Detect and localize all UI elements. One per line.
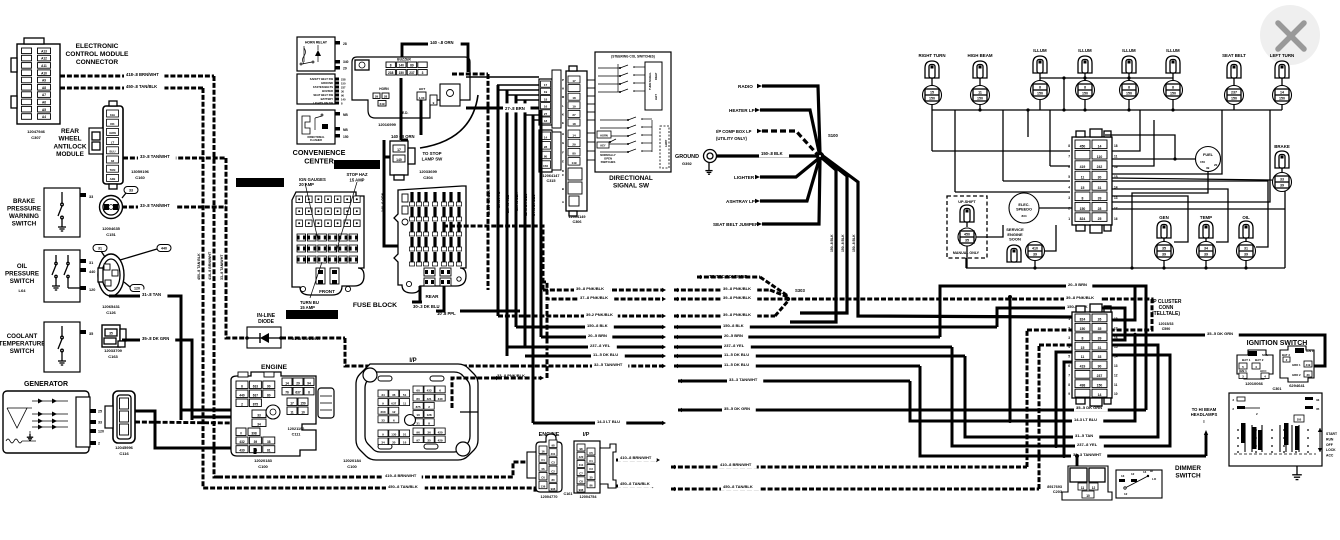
svg-text:824: 824	[1080, 217, 1086, 221]
svg-text:150: 150	[1080, 327, 1086, 331]
svg-text:80: 80	[551, 478, 555, 482]
svg-text:C100: C100	[347, 464, 357, 469]
svg-text:12033709: 12033709	[104, 348, 123, 353]
svg-text:ILLUM: ILLUM	[1033, 48, 1047, 53]
svg-text:8917693: 8917693	[1047, 485, 1062, 489]
svg-text:A8: A8	[42, 86, 46, 90]
svg-text:NB: NB	[343, 128, 348, 132]
directional signal switch box	[595, 52, 671, 172]
svg-text:8: 8	[308, 391, 310, 395]
svg-text:136: 136	[541, 485, 546, 489]
svg-text:439: 439	[239, 449, 245, 453]
svg-text:A12: A12	[41, 57, 47, 61]
svg-text:89: 89	[410, 63, 414, 67]
svg-text:GRD 2: GRD 2	[1292, 373, 1301, 377]
band wire 39-2 PNK/BLK	[498, 315, 662, 318]
svg-text:PRESSURE: PRESSURE	[7, 206, 41, 213]
svg-text:P: P	[562, 78, 564, 82]
svg-text:HORN: HORN	[600, 133, 608, 137]
svg-text:18: 18	[1114, 144, 1118, 148]
svg-text:18: 18	[572, 96, 576, 100]
svg-text:98: 98	[579, 447, 583, 451]
svg-text:8: 8	[1082, 336, 1084, 340]
wire 31-.8 TAN	[109, 296, 181, 420]
svg-text:31-.5 TAN: 31-.5 TAN	[1075, 433, 1093, 438]
connector C163	[102, 325, 120, 347]
svg-text:RIGHT: RIGHT	[655, 72, 658, 80]
svg-text:39-.8 PNK/BLK: 39-.8 PNK/BLK	[723, 286, 751, 291]
svg-text:REAR: REAR	[61, 128, 79, 135]
svg-text:BAT 3: BAT 3	[1282, 353, 1290, 357]
svg-text:CENTER: CENTER	[304, 157, 334, 166]
svg-text:401: 401	[551, 452, 556, 456]
svg-text:12047946: 12047946	[27, 129, 46, 134]
svg-text:14: 14	[285, 381, 289, 385]
svg-text:16-.8 PPL: 16-.8 PPL	[497, 191, 501, 208]
svg-text:I: I	[1203, 419, 1204, 424]
wires buzzer to C315	[452, 73, 488, 76]
svg-text:C116: C116	[119, 451, 129, 456]
svg-text:156: 156	[543, 164, 548, 168]
buzzer leads down	[400, 78, 403, 140]
svg-text:33: 33	[257, 413, 261, 417]
wire 450-.8 TAN/BLK	[60, 87, 203, 90]
svg-text:86: 86	[589, 484, 593, 488]
svg-text:L: L	[562, 104, 564, 108]
svg-text:NB: NB	[343, 113, 348, 117]
svg-text:410-.8 BRN/WHT: 410-.8 BRN/WHT	[620, 455, 652, 460]
svg-text:15: 15	[1114, 345, 1118, 349]
svg-text:LIGHTS ON SW: LIGHTS ON SW	[313, 101, 333, 105]
svg-text:150-.8 BLK: 150-.8 BLK	[723, 323, 744, 328]
svg-text:S303: S303	[795, 288, 805, 293]
svg-text:440: 440	[239, 393, 245, 397]
svg-text:34: 34	[257, 422, 261, 426]
svg-text:150-.8 BLK: 150-.8 BLK	[587, 323, 608, 328]
convenience center horn relay box	[297, 37, 335, 71]
svg-text:12004149: 12004149	[569, 215, 586, 219]
svg-text:33-.8 TAN/WHT: 33-.8 TAN/WHT	[220, 254, 224, 280]
label 27-.8 BRN redraw	[503, 103, 530, 112]
svg-text:33: 33	[1316, 398, 1320, 402]
wire 35-.5 DK GRN to ignition	[1112, 335, 1325, 366]
svg-text:ELEC.: ELEC.	[1018, 203, 1029, 207]
buzzer module 12016999	[352, 57, 470, 118]
wire 140-.8 ORN buzzer top	[402, 44, 468, 72]
svg-text:94: 94	[307, 381, 311, 385]
svg-text:33: 33	[89, 195, 93, 199]
svg-text:996: 996	[579, 488, 584, 492]
svg-text:33: 33	[98, 421, 102, 425]
svg-text:150: 150	[343, 135, 349, 139]
svg-text:140 -.8 ORN: 140 -.8 ORN	[391, 134, 415, 139]
svg-text:150: 150	[1170, 92, 1176, 96]
svg-text:875: 875	[416, 405, 421, 409]
svg-text:150: 150	[1082, 92, 1088, 96]
svg-text:39: 39	[1162, 253, 1166, 257]
svg-text:14-.5 LT BLU: 14-.5 LT BLU	[532, 194, 536, 216]
svg-text:A6: A6	[42, 101, 46, 105]
svg-text:39-.8 PNK/BLK: 39-.8 PNK/BLK	[487, 189, 491, 215]
wires C315 left to vertical bundle	[497, 84, 539, 86]
svg-text:11: 11	[1114, 154, 1118, 158]
svg-text:#: #	[240, 431, 242, 435]
svg-text:13: 13	[1121, 474, 1125, 478]
svg-text:DIODE: DIODE	[258, 319, 275, 325]
directional sw contacts	[598, 67, 620, 69]
cluster right-side wires	[1112, 110, 1140, 151]
svg-text:FASTEN BELTS: FASTEN BELTS	[313, 85, 333, 89]
band wire 20 BRN	[541, 336, 662, 339]
svg-text:11: 11	[290, 410, 294, 414]
svg-text:ENGINE: ENGINE	[261, 364, 288, 371]
svg-text:824: 824	[1080, 318, 1086, 322]
svg-text:C100: C100	[258, 464, 268, 469]
svg-text:16: 16	[1114, 217, 1118, 221]
svg-text:12020183: 12020183	[254, 458, 273, 463]
connector C315	[539, 79, 552, 125]
svg-text:340: 340	[343, 60, 349, 64]
svg-text:15: 15	[930, 91, 934, 95]
svg-text:13059196: 13059196	[131, 169, 150, 174]
svg-text:420: 420	[438, 430, 443, 434]
svg-text:33: 33	[1280, 178, 1284, 182]
svg-text:97: 97	[416, 438, 420, 442]
svg-text:39: 39	[1280, 184, 1284, 188]
svg-text:20-.5 BRN: 20-.5 BRN	[724, 333, 743, 338]
svg-text:31: 31	[1244, 247, 1248, 251]
svg-text:420: 420	[579, 455, 584, 459]
svg-text:834: 834	[1021, 214, 1026, 218]
svg-text:30: 30	[392, 440, 396, 444]
svg-text:LOCK: LOCK	[1326, 448, 1336, 452]
rear fuse bars	[410, 192, 413, 202]
svg-text:E: E	[562, 121, 564, 125]
svg-text:33-.8 TAN/WHT: 33-.8 TAN/WHT	[140, 154, 170, 159]
band wire 33 TAN/WHT right	[678, 379, 682, 383]
svg-text:140-.8 ORN: 140-.8 ORN	[381, 192, 385, 212]
svg-text:14: 14	[572, 133, 576, 137]
svg-text:A2B: A2B	[110, 177, 116, 181]
svg-text:LAMP SW: LAMP SW	[422, 157, 444, 162]
svg-text:450-.8 TAN/BLK: 450-.8 TAN/BLK	[126, 84, 157, 89]
svg-text:C8: C8	[579, 480, 583, 484]
svg-text:14-3 LT BLU: 14-3 LT BLU	[1074, 417, 1097, 422]
svg-text:398: 398	[251, 431, 257, 435]
svg-text:1,00: 1,00	[419, 96, 425, 100]
svg-text:WHEEL: WHEEL	[58, 136, 81, 143]
svg-text:(TELLTALE): (TELLTALE)	[1152, 311, 1180, 317]
svg-text:6: 6	[1068, 364, 1070, 368]
svg-text:418-.8 BRN/WHT: 418-.8 BRN/WHT	[126, 72, 159, 77]
svg-text:MANUAL ONLY: MANUAL ONLY	[953, 251, 980, 255]
svg-text:HOT AT ALL TIMES: HOT AT ALL TIMES	[339, 163, 376, 168]
svg-text:BLU: BLU	[110, 150, 116, 154]
svg-text:LEFT TURN: LEFT TURN	[1270, 53, 1294, 58]
svg-text:11: 11	[1081, 355, 1085, 359]
svg-text:633: 633	[253, 384, 259, 388]
svg-text:C1: C1	[541, 458, 545, 462]
svg-text:HORN RELAY: HORN RELAY	[305, 41, 328, 45]
svg-text:A10: A10	[41, 71, 47, 75]
svg-text:875: 875	[253, 402, 259, 406]
svg-text:18: 18	[544, 97, 548, 101]
svg-text:SEAT BELT SW: SEAT BELT SW	[313, 93, 333, 97]
svg-text:237: 237	[1231, 91, 1237, 95]
svg-text:120: 120	[98, 430, 104, 434]
svg-text:S100: S100	[828, 133, 838, 138]
svg-text:C2: C2	[551, 469, 555, 473]
svg-text:498: 498	[1080, 383, 1086, 387]
svg-text:11-.5 DK BLU: 11-.5 DK BLU	[593, 352, 618, 357]
svg-text:UP-SHIFT: UP-SHIFT	[958, 200, 976, 204]
svg-text:419-.8 BRN/WHT: 419-.8 BRN/WHT	[385, 473, 417, 478]
svg-text:149: 149	[571, 161, 576, 165]
svg-text:150-.8 BLK: 150-.8 BLK	[830, 234, 834, 252]
svg-text:29: 29	[296, 381, 300, 385]
svg-text:15 AMP: 15 AMP	[300, 305, 315, 310]
svg-text:237: 237	[409, 71, 415, 75]
lamp bus lower	[932, 109, 1282, 111]
svg-text:32-.5 TAN/WHT: 32-.5 TAN/WHT	[594, 362, 623, 367]
svg-text:GENERATOR: GENERATOR	[24, 381, 68, 388]
svg-text:27: 27	[572, 113, 576, 117]
vertical link x1010	[1009, 297, 1012, 421]
svg-text:637: 637	[295, 391, 301, 395]
svg-text:8: 8	[1082, 196, 1084, 200]
svg-text:C160: C160	[135, 175, 145, 180]
svg-text:419: 419	[1080, 165, 1086, 169]
svg-text:GEN: GEN	[1159, 215, 1169, 220]
svg-text:33: 33	[381, 419, 385, 423]
svg-text:440: 440	[161, 247, 167, 251]
svg-text:ACC: ACC	[1326, 454, 1334, 458]
svg-text:450: 450	[1080, 144, 1086, 148]
svg-text:SAFETY BELT SW: SAFETY BELT SW	[310, 77, 334, 81]
svg-text:KEY: KEY	[600, 144, 606, 148]
svg-text:30: 30	[341, 89, 344, 93]
svg-text:429: 429	[438, 438, 443, 442]
svg-text:H: H	[562, 87, 564, 91]
svg-text:25: 25	[1098, 217, 1102, 221]
svg-text:33-.8 TAN/WHT: 33-.8 TAN/WHT	[140, 203, 170, 208]
svg-text:RIGHT TURN: RIGHT TURN	[918, 53, 945, 58]
svg-text:150: 150	[1097, 383, 1103, 387]
svg-text:150-.8 BLK: 150-.8 BLK	[515, 192, 519, 211]
svg-text:PRESSURE: PRESSURE	[5, 271, 39, 278]
svg-text:31A: 31A	[110, 113, 116, 117]
svg-text:FLASHER: FLASHER	[310, 139, 322, 142]
svg-text:11-.5 DK BLU: 11-.5 DK BLU	[724, 352, 749, 357]
svg-text:12064147: 12064147	[543, 174, 560, 178]
band wire 11 DK BLU	[525, 355, 662, 358]
arc wire to stop lamp	[420, 95, 478, 148]
svg-text:7: 7	[1068, 154, 1070, 158]
S100 splice node	[816, 152, 824, 160]
svg-text:80: 80	[544, 155, 548, 159]
svg-text:17: 17	[290, 401, 294, 405]
svg-text:130: 130	[391, 432, 396, 436]
svg-text:140: 140	[399, 63, 405, 67]
wire 33-.8 TAN/WHT brake	[122, 206, 226, 209]
cluster connector (gauges)	[1072, 137, 1112, 225]
svg-text:RUN: RUN	[1326, 437, 1334, 441]
svg-text:30: 30	[589, 475, 593, 479]
svg-text:37-.8 PNK/BLK: 37-.8 PNK/BLK	[580, 295, 608, 300]
svg-text:637: 637	[391, 401, 396, 405]
svg-text:30: 30	[1098, 176, 1102, 180]
svg-text:150-.8 BLK: 150-.8 BLK	[841, 234, 845, 252]
labels front fuse block	[236, 178, 284, 187]
svg-text:33: 33	[129, 189, 133, 193]
svg-text:12: 12	[1131, 472, 1135, 476]
svg-text:15: 15	[1081, 186, 1085, 190]
svg-text:35: 35	[1162, 247, 1166, 251]
svg-text:419: 419	[1306, 363, 1311, 367]
svg-text:I/P: I/P	[409, 358, 416, 364]
svg-text:2: 2	[98, 442, 100, 446]
svg-text:150-.8 BLK: 150-.8 BLK	[852, 234, 856, 252]
svg-text:12016999: 12016999	[378, 122, 397, 127]
svg-text:C315: C315	[546, 179, 555, 183]
svg-text:C3: C3	[551, 461, 555, 465]
svg-text:IGN 1: IGN 1	[1239, 369, 1247, 373]
svg-text:81: 81	[267, 449, 271, 453]
svg-text:OIL: OIL	[17, 263, 28, 270]
svg-text:6294641: 6294641	[1289, 383, 1305, 388]
svg-text:440: 440	[89, 270, 95, 274]
svg-text:GROUND: GROUND	[675, 154, 699, 160]
svg-text:35-.5 DK GRN: 35-.5 DK GRN	[1207, 331, 1233, 336]
wire 418-.8 BRN/WHT	[60, 75, 214, 78]
svg-text:20-.5 BRN: 20-.5 BRN	[1068, 282, 1087, 287]
svg-text:237-.8 YEL: 237-.8 YEL	[506, 194, 510, 213]
svg-text:2: 2	[241, 402, 243, 406]
svg-text:39: 39	[1204, 253, 1208, 257]
dashed from rear fuse to right	[443, 226, 543, 290]
svg-text:637: 637	[253, 393, 259, 397]
ignition switch assembly box	[1229, 393, 1322, 466]
svg-text:ILLUM: ILLUM	[1166, 48, 1180, 53]
svg-text:8: 8	[1084, 86, 1086, 90]
wire to TCC solenoid	[707, 271, 750, 280]
svg-text:15: 15	[1081, 346, 1085, 350]
svg-text:C304: C304	[423, 175, 433, 180]
svg-text:150: 150	[1279, 97, 1285, 101]
svg-text:BAT 1: BAT 1	[1242, 358, 1251, 362]
long dashed 410 to right	[671, 465, 675, 469]
svg-text:39-.8 PNK/BLK: 39-.8 PNK/BLK	[723, 312, 751, 317]
wire drop 418 BRN/WHT	[214, 76, 218, 477]
svg-text:440: 440	[438, 397, 443, 401]
generator internals	[7, 408, 27, 428]
svg-text:12: 12	[1124, 492, 1128, 496]
svg-text:BRAKE: BRAKE	[13, 198, 35, 205]
svg-text:DIRECTIONAL: DIRECTIONAL	[609, 175, 653, 182]
svg-text:DIMMER: DIMMER	[1175, 465, 1201, 472]
svg-text:12: 12	[1092, 486, 1096, 490]
svg-text:HOT IN ACCY OR RUN: HOT IN ACCY OR RUN	[241, 182, 280, 186]
svg-text:TEMP: TEMP	[1200, 215, 1212, 220]
engine connector right half C111	[282, 378, 292, 386]
svg-text:C307: C307	[31, 135, 41, 140]
svg-text:SEAT BELT JUMPER: SEAT BELT JUMPER	[713, 222, 759, 227]
svg-text:ACC: ACC	[1260, 369, 1267, 373]
svg-text:1: 1	[1068, 217, 1070, 221]
svg-text:36: 36	[427, 430, 431, 434]
svg-text:450-.8 TAN/BLK: 450-.8 TAN/BLK	[620, 481, 650, 486]
svg-text:140: 140	[341, 97, 346, 101]
svg-text:18: 18	[544, 119, 548, 123]
svg-text:SOL: SOL	[1262, 353, 1268, 357]
svg-text:35: 35	[427, 438, 431, 442]
svg-text:ELECTRONIC: ELECTRONIC	[76, 43, 119, 50]
svg-text:IGN 3: IGN 3	[1306, 349, 1314, 353]
svg-text:H: H	[562, 132, 564, 136]
svg-text:BUZZER: BUZZER	[322, 89, 333, 93]
svg-text:12065431: 12065431	[102, 304, 121, 309]
svg-text:237: 237	[1097, 374, 1103, 378]
ignition connector left 12010066	[1237, 350, 1273, 379]
svg-text:17: 17	[544, 83, 548, 87]
svg-text:80: 80	[267, 393, 271, 397]
svg-text:237: 237	[341, 85, 346, 89]
svg-text:12020184: 12020184	[343, 458, 362, 463]
svg-text:STOP HAZ: STOP HAZ	[346, 172, 367, 177]
telltale right verticals	[1103, 286, 1135, 320]
svg-text:MODULE: MODULE	[56, 151, 84, 158]
wire 35-.8 DK GRN	[122, 340, 192, 420]
generator wires	[135, 411, 255, 448]
svg-text:433: 433	[427, 389, 432, 393]
svg-text:SPEEDO: SPEEDO	[1016, 208, 1032, 212]
svg-text:11-.5 DK BLU: 11-.5 DK BLU	[524, 193, 528, 216]
illum bus upper	[1040, 77, 1173, 79]
svg-text:39: 39	[1244, 253, 1248, 257]
svg-text:15 AMP: 15 AMP	[350, 178, 365, 183]
svg-text:SWITCH: SWITCH	[1175, 473, 1201, 480]
wire 33-.8 TAN/WHT antilock	[123, 157, 226, 160]
svg-text:TEMPERATURE: TEMPERATURE	[0, 341, 45, 348]
I/P grid bottom	[378, 430, 388, 437]
svg-text:20 AMP: 20 AMP	[299, 182, 314, 187]
svg-text:A7: A7	[42, 93, 46, 97]
svg-text:16: 16	[544, 105, 548, 109]
svg-text:36: 36	[392, 393, 396, 397]
svg-text:A11: A11	[41, 64, 47, 68]
wire 27-.8 BRN	[466, 107, 541, 110]
svg-text:237-.8 YEL: 237-.8 YEL	[1077, 442, 1098, 447]
svg-text:29: 29	[343, 67, 347, 71]
svg-text:18: 18	[572, 122, 576, 126]
ignition ground	[1296, 466, 1298, 470]
svg-text:25: 25	[98, 410, 102, 414]
svg-text:96: 96	[416, 430, 420, 434]
svg-text:35: 35	[109, 332, 113, 336]
svg-text:237-.8 YEL: 237-.8 YEL	[590, 343, 611, 348]
svg-text:35: 35	[1316, 407, 1320, 411]
svg-text:HOT: HOT	[419, 87, 426, 91]
svg-text:C161: C161	[563, 492, 572, 496]
svg-text:30-.3 DK BLU: 30-.3 DK BLU	[413, 304, 440, 309]
svg-text:90: 90	[267, 384, 271, 388]
front fuse block outline	[292, 192, 364, 295]
svg-text:39: 39	[1206, 166, 1210, 170]
svg-text:150: 150	[929, 97, 935, 101]
svg-text:17: 17	[572, 79, 576, 83]
svg-text:12004635: 12004635	[102, 226, 121, 231]
svg-text:35: 35	[965, 239, 969, 243]
